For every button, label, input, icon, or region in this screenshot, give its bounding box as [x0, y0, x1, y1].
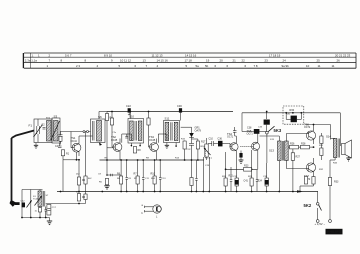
- battery terminals: [315, 220, 332, 227]
- table row 2 numbers: [25, 59, 340, 63]
- aerial plug: [10, 200, 20, 207]
- svg-text:9a 9b: 9a 9b: [282, 64, 290, 68]
- svg-text:20 21 22 23: 20 21 22 23: [335, 53, 351, 57]
- wire TS2 collector to IFT1: [122, 134, 132, 143]
- electrolytic C12: [22, 203, 25, 208]
- svg-text:8 9 10: 8 9 10: [104, 53, 112, 57]
- IF transformer S11/S12: [164, 112, 181, 143]
- coil S1 (hatched): [46, 117, 51, 141]
- svg-text:R1: R1: [66, 153, 70, 156]
- capacitor C9 with ground: [99, 160, 121, 189]
- svg-text:R20: R20: [222, 176, 227, 178]
- S7 core arrow: [35, 196, 43, 206]
- svg-text:1: 1: [38, 53, 40, 57]
- trimmer arrow: [27, 200, 32, 208]
- svg-text:R8: R8: [138, 149, 142, 152]
- svg-text:OC71: OC71: [227, 136, 234, 139]
- PHILIPS logo: [326, 229, 343, 235]
- svg-text:1: 1: [47, 64, 49, 68]
- svg-text:R32: R32: [319, 169, 324, 171]
- trimmer C17: [47, 205, 57, 216]
- svg-text:S14: S14: [326, 135, 331, 139]
- wire rail riser resistor R4: [105, 114, 113, 121]
- resistor R16: [192, 139, 200, 160]
- svg-text:22: 22: [242, 59, 246, 63]
- capacitor C34 with ground: [239, 151, 244, 164]
- loudspeaker: [342, 140, 352, 161]
- svg-text:R7: R7: [134, 173, 138, 176]
- wire loop left: [22, 190, 50, 218]
- capacitor C14: [45, 207, 48, 218]
- svg-text:R5: R5: [105, 158, 109, 160]
- transistor TS6: [304, 122, 316, 144]
- resistor R1: [59, 136, 62, 144]
- resistor R27 vertical: [291, 149, 300, 192]
- svg-text:5: 5: [119, 64, 121, 68]
- svg-text:8k2: 8k2: [88, 178, 92, 180]
- svg-text:C30: C30: [177, 104, 182, 108]
- svg-text:C8: C8: [128, 178, 132, 180]
- resistor R15: [183, 141, 186, 161]
- svg-text:6: 6: [227, 64, 229, 68]
- wire TS3 collector to IFT2: [158, 134, 167, 143]
- svg-text:5a: 5a: [196, 64, 200, 68]
- emitter coupling rail: [225, 155, 258, 170]
- svg-text:14 15 16: 14 15 16: [157, 59, 169, 63]
- svg-text:17 18 19: 17 18 19: [269, 53, 281, 57]
- resistor R8 between stages: [133, 147, 141, 154]
- svg-text:1.: 1.: [32, 53, 34, 57]
- svg-text:PHILIPS: PHILIPS: [327, 230, 342, 234]
- top supply rail: [107, 111, 233, 113]
- svg-text:OC45: OC45: [111, 139, 118, 142]
- svg-text:R15: R15: [181, 139, 186, 141]
- battery rail arrow: [297, 190, 303, 193]
- IFT2 bottom ground: [165, 143, 169, 149]
- TS6/TS7 collector rail: [305, 125, 331, 140]
- svg-text:R31: R31: [319, 145, 324, 147]
- volume potentiometer R17: [201, 138, 211, 160]
- switch 5K3: [264, 112, 282, 164]
- svg-text:6: 6: [215, 64, 217, 68]
- resistor R33: [328, 160, 339, 220]
- svg-text:21: 21: [233, 59, 237, 63]
- svg-text:2,3a 1,1a: 2,3a 1,1a: [25, 59, 37, 63]
- svg-text:R28: R28: [301, 142, 306, 145]
- junction dots right: [184, 111, 315, 193]
- svg-text:R30: R30: [290, 109, 295, 112]
- svg-text:2 3: 2 3: [76, 64, 80, 68]
- svg-text:C22: C22: [126, 104, 131, 108]
- capacitor C32: [189, 141, 194, 160]
- svg-text:OC44: OC44: [71, 140, 78, 143]
- svg-text:11: 11: [318, 64, 321, 68]
- junction dots rails: [60, 111, 182, 193]
- wire rail left drop: [106, 112, 108, 161]
- svg-text:S6: S6: [98, 115, 102, 119]
- svg-text:a: a: [142, 204, 144, 207]
- electrolytic C38: [247, 127, 259, 134]
- svg-text:6: 6: [135, 64, 137, 68]
- svg-text:25: 25: [317, 59, 321, 63]
- dashed thermistor box: [283, 106, 304, 124]
- table row labels: [32, 53, 34, 57]
- wire TS5 collector: [257, 129, 259, 134]
- resistor R7 + cap C11 pair: [134, 160, 145, 192]
- svg-text:5 6 7: 5 6 7: [65, 53, 72, 57]
- capacitor C30 on riser: [177, 104, 182, 112]
- svg-text:C36: C36: [218, 137, 223, 140]
- svg-text:R23: R23: [248, 176, 253, 178]
- svg-text:R9: R9: [146, 158, 150, 160]
- wire osc box to rail: [99, 112, 107, 120]
- svg-text:C10: C10: [209, 138, 214, 141]
- table row 1 numbers: [38, 53, 351, 57]
- svg-text:OC72: OC72: [304, 126, 311, 129]
- capacitor C4: [55, 143, 62, 148]
- resistor R4b below rail: [84, 194, 87, 200]
- capacitor C35: [233, 127, 237, 136]
- svg-text:S7: S7: [46, 195, 49, 197]
- transistor TS7: [304, 158, 316, 181]
- svg-text:S13: S13: [270, 139, 275, 141]
- svg-text:R23: R23: [244, 165, 249, 168]
- capacitor C2: [42, 124, 46, 130]
- svg-text:C41: C41: [244, 180, 249, 183]
- svg-text:R30: R30: [286, 114, 291, 116]
- wire emitter chain: [63, 151, 80, 195]
- svg-text:1k: 1k: [35, 211, 38, 213]
- resistor R23 horizontal: [244, 165, 252, 172]
- svg-text:20: 20: [220, 59, 224, 63]
- switch 5K2: [304, 192, 322, 220]
- transistor TS1: [71, 132, 81, 157]
- svg-text:7: 7: [146, 64, 148, 68]
- svg-text:R10: R10: [151, 173, 156, 176]
- capacitor C23: [125, 134, 128, 138]
- svg-text:17 18: 17 18: [185, 59, 193, 63]
- ground below box1: [34, 143, 38, 149]
- svg-text:S10: S10: [129, 115, 134, 119]
- variable capacitor C1: [34, 119, 43, 143]
- svg-text:11 12 13: 11 12 13: [152, 53, 163, 57]
- resistor R5 + cap C8 pair: [117, 160, 128, 192]
- IF transformer S9/S10: [128, 112, 144, 144]
- wire IFT1 secondary to TS2 base: [107, 147, 113, 149]
- wire driver secondary to output bases: [286, 134, 306, 169]
- resistor R31 vertical: [320, 133, 323, 160]
- tuned circuit box 2 with coil S3: [51, 118, 60, 143]
- svg-text:13: 13: [143, 59, 147, 63]
- svg-text:R33: R33: [334, 181, 339, 184]
- svg-text:5K3: 5K3: [274, 128, 282, 133]
- svg-text:10 11 12: 10 11 12: [120, 59, 131, 63]
- driver transformer S13: [260, 136, 289, 192]
- oscillator coil S7 (hatched with core): [38, 190, 45, 218]
- svg-text:5K2: 5K2: [304, 203, 312, 208]
- svg-text:26: 26: [337, 59, 341, 63]
- table row 3 numbers: [47, 64, 335, 68]
- resistor R4a: [84, 176, 87, 184]
- svg-text:C33: C33: [258, 127, 263, 129]
- table frame: [23, 53, 356, 68]
- svg-text:R26: R26: [290, 142, 295, 145]
- svg-text:C12: C12: [21, 201, 26, 203]
- value labels: [21, 114, 338, 213]
- svg-text:6: 6: [245, 64, 247, 68]
- svg-text:R34: R34: [333, 163, 338, 165]
- svg-text:C32: C32: [187, 149, 192, 151]
- wire rail to speaker: [339, 113, 341, 146]
- resistor R26: [290, 142, 299, 149]
- svg-text:F1: F1: [29, 124, 33, 128]
- svg-text:+ 4,5V −: + 4,5V −: [315, 222, 326, 226]
- long bottom rail: [57, 191, 318, 193]
- transistor TS4: [227, 132, 238, 152]
- resistor R1a: [61, 150, 69, 156]
- svg-text:R24: R24: [258, 180, 263, 183]
- wire osc tap: [85, 132, 87, 204]
- svg-text:OA79: OA79: [195, 129, 202, 132]
- transistor TS5: [240, 129, 259, 155]
- svg-text:19: 19: [206, 59, 210, 63]
- svg-text:11: 11: [332, 64, 335, 68]
- dial lamp: [142, 204, 162, 219]
- resistor R2: [77, 177, 85, 185]
- wire TS1 collector to osc coil: [79, 136, 93, 140]
- svg-text:5: 5: [186, 64, 188, 68]
- svg-text:C17: C17: [52, 207, 57, 209]
- supply rail right: [242, 113, 340, 127]
- svg-text:7 8: 7 8: [254, 64, 258, 68]
- capacitor C22 on riser: [126, 104, 131, 115]
- diode GR1: [181, 127, 202, 142]
- svg-text:b: b: [142, 212, 144, 215]
- resistor R14: [38, 208, 41, 213]
- connector circles on base wire: [83, 131, 89, 133]
- svg-text:4: 4: [157, 64, 159, 68]
- svg-text:C37: C37: [233, 176, 238, 178]
- svg-text:C38: C38: [247, 127, 252, 130]
- svg-text:24: 24: [283, 59, 287, 63]
- electrolytic C36: [217, 137, 229, 146]
- wire TS7 emitter down: [299, 176, 315, 192]
- svg-text:10: 10: [306, 64, 310, 68]
- svg-text:5b: 5b: [205, 64, 209, 68]
- svg-text:C13: C13: [162, 178, 167, 180]
- svg-text:R13: R13: [175, 158, 180, 160]
- svg-text:R17: R17: [201, 141, 206, 144]
- pot wires down: [202, 149, 212, 192]
- capacitor C3: [59, 132, 63, 137]
- resistor R28: [288, 142, 313, 149]
- AVC return line: [46, 203, 86, 205]
- svg-text:R5: R5: [99, 182, 103, 184]
- svg-text:2k2: 2k2: [76, 174, 80, 176]
- ground (bottom left): [47, 218, 52, 225]
- AF bias resistors row: [224, 150, 269, 192]
- svg-text:S11: S11: [165, 117, 170, 121]
- wire base line: [60, 131, 91, 133]
- transistor TS3: [147, 111, 159, 160]
- svg-text:S13: S13: [269, 149, 274, 153]
- svg-text:4: 4: [97, 64, 99, 68]
- svg-text:23: 23: [265, 59, 269, 63]
- tuned circuit box 1: [34, 119, 52, 143]
- wire C38 junction: [242, 127, 267, 132]
- osc core arrow: [99, 142, 102, 145]
- oscillator box S5/S6: [91, 119, 106, 143]
- svg-text:C2: C2: [42, 124, 46, 127]
- svg-text:OC45: OC45: [149, 139, 156, 142]
- IFT1 bottom stubs: [131, 143, 141, 147]
- svg-text:C9: C9: [98, 174, 102, 176]
- IFT2 bottom stub right: [175, 143, 177, 148]
- resistor R16a lower: [190, 160, 198, 192]
- svg-text:C7a: C7a: [112, 132, 117, 134]
- svg-text:S1: S1: [33, 196, 36, 198]
- svg-text:14 15 16: 14 15 16: [185, 53, 197, 57]
- AGC rail: [100, 159, 205, 161]
- capacitor C39b: [255, 131, 259, 133]
- svg-text:2: 2: [49, 53, 51, 57]
- svg-text:S3: S3: [54, 115, 58, 119]
- resistor R10 + cap C13 pair: [151, 160, 162, 192]
- resistor R3: [77, 194, 85, 202]
- transistor TS2: [110, 111, 122, 160]
- svg-text:L: L: [156, 216, 158, 219]
- junction dots bottom rail: [21, 217, 46, 219]
- capacitor C10: [208, 138, 217, 147]
- antenna lead wire (thick): [12, 131, 35, 201]
- svg-text:C39: C39: [263, 176, 268, 178]
- svg-text:R27: R27: [296, 156, 301, 159]
- svg-text:OC71: OC71: [247, 133, 254, 136]
- output transformer S14: [326, 135, 339, 161]
- svg-text:TC1: TC1: [46, 117, 51, 120]
- svg-text:C11: C11: [145, 178, 150, 180]
